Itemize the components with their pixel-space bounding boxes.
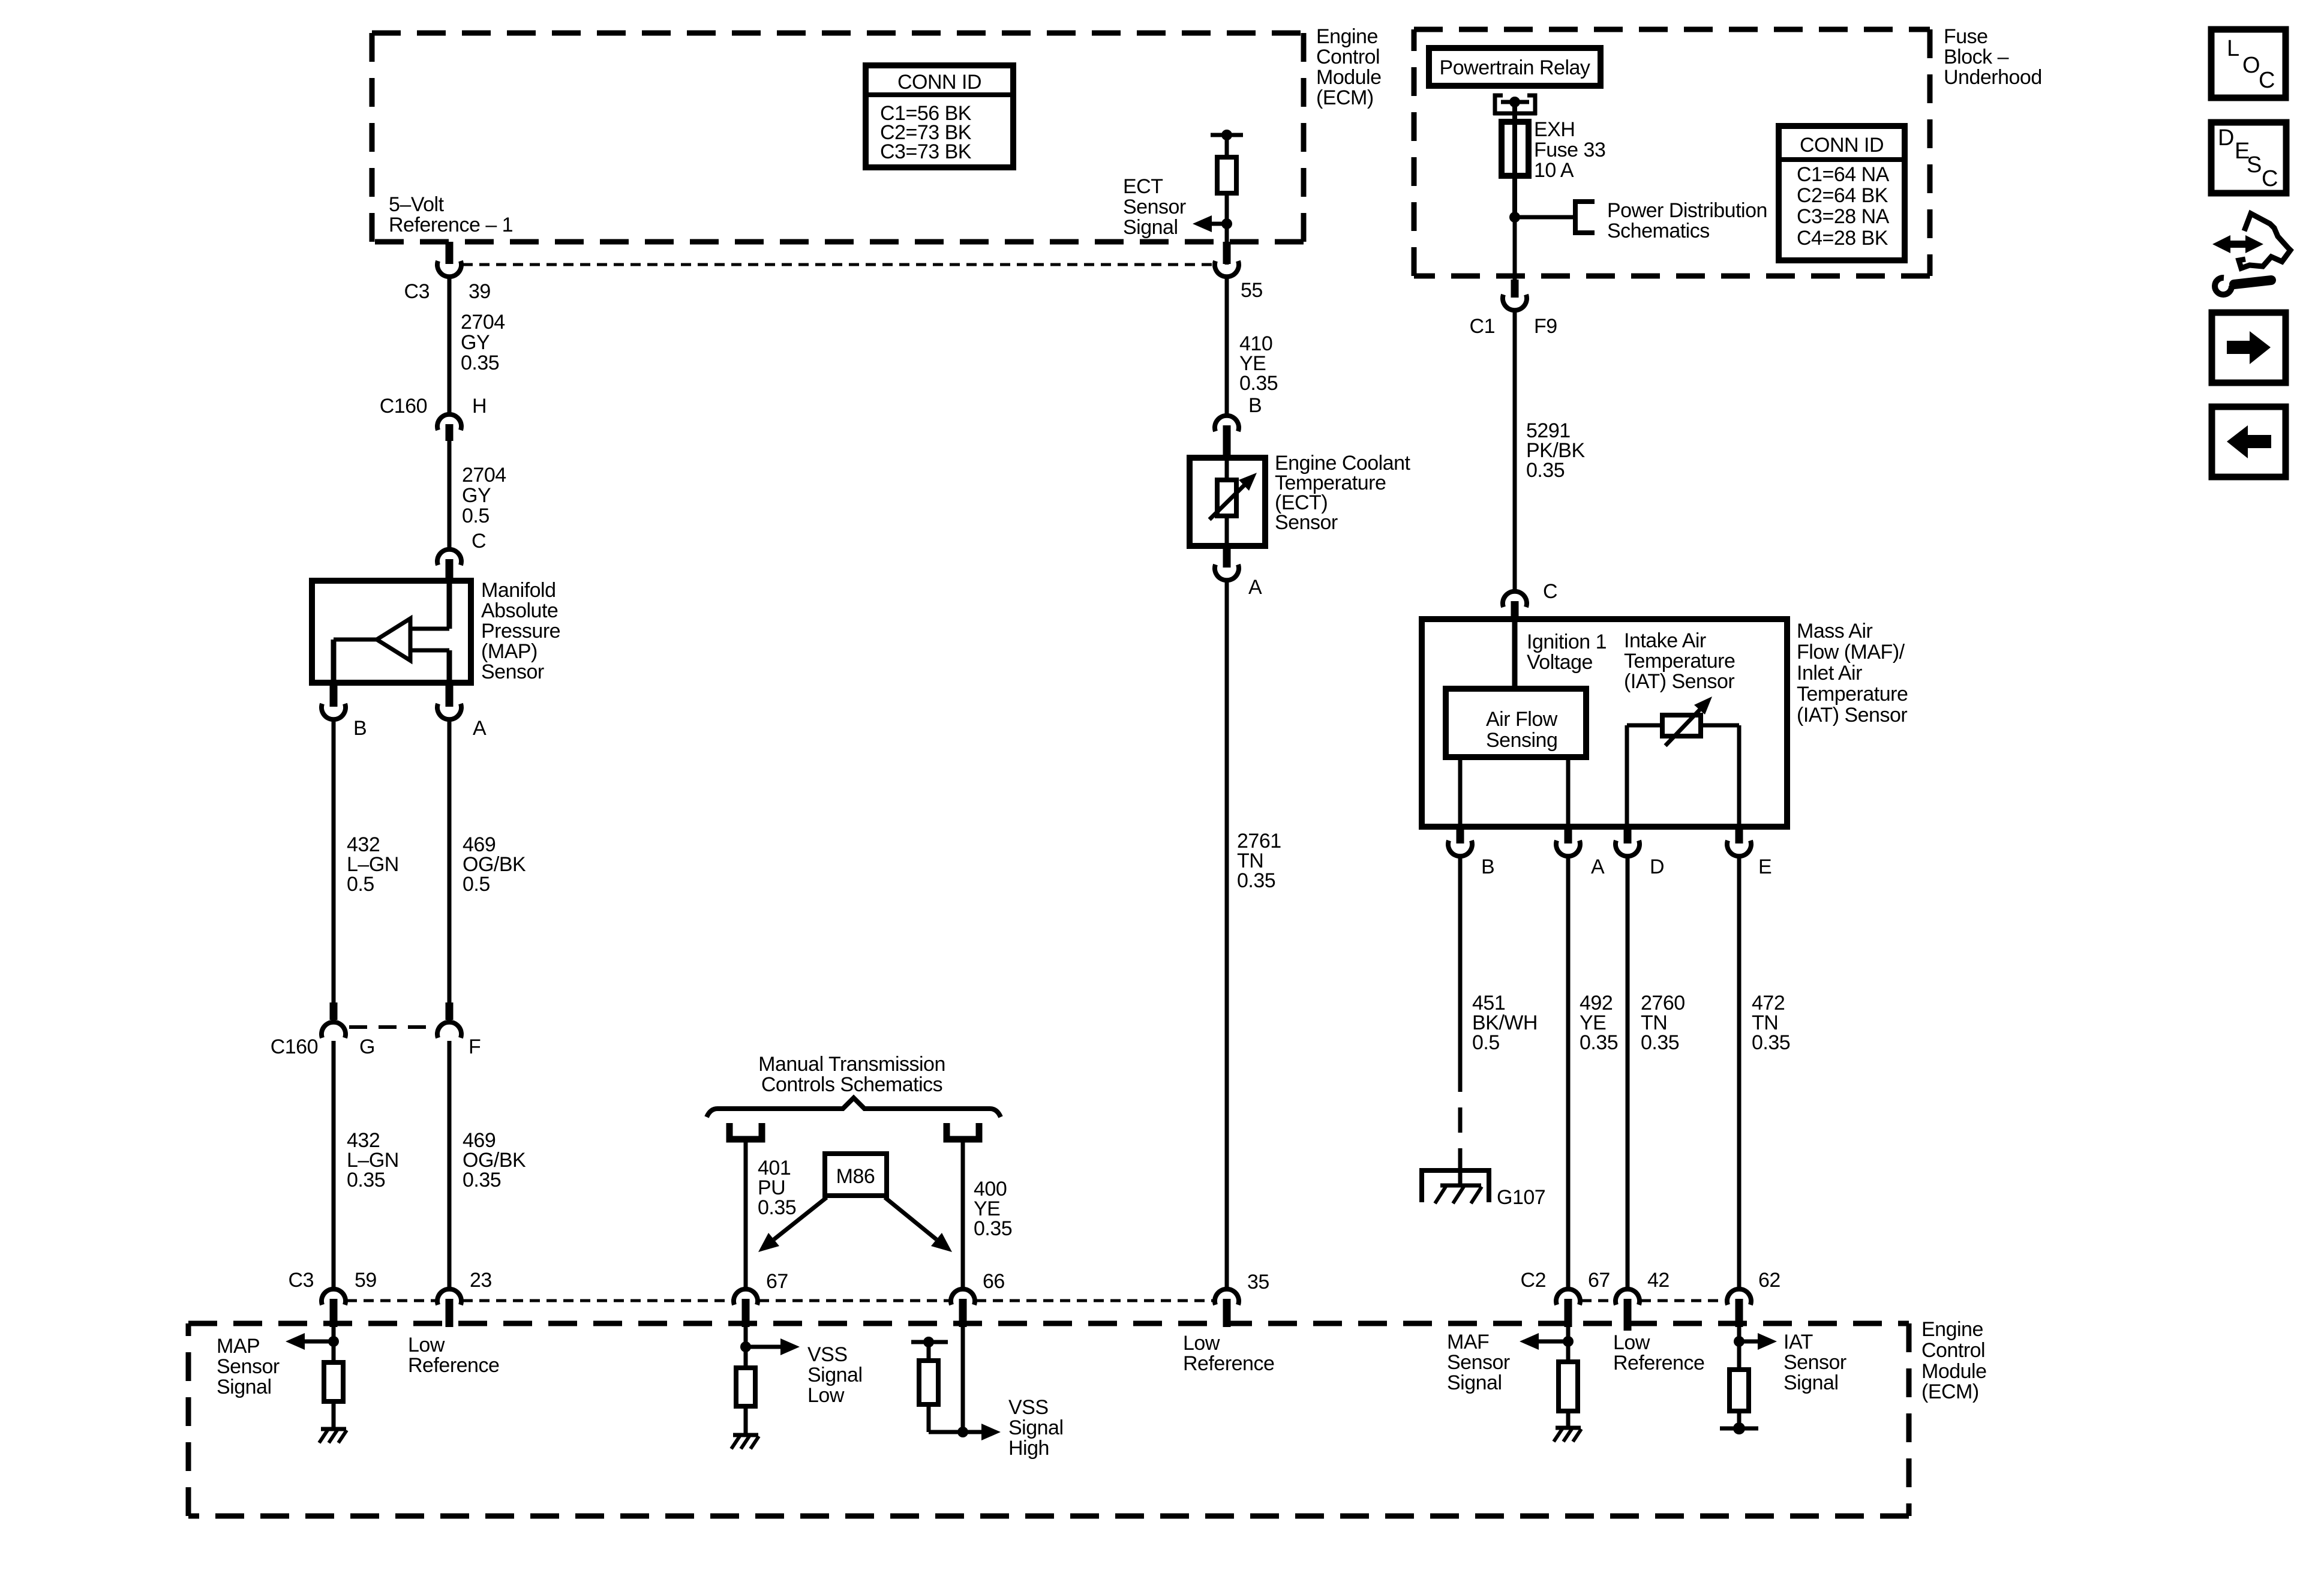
svg-text:C3=73 BK: C3=73 BK (880, 140, 972, 163)
node MAP sensor signal junction (328, 1336, 339, 1347)
svg-text:Low: Low (1613, 1331, 1650, 1354)
svg-text:C3: C3 (289, 1269, 314, 1292)
svg-text:G107: G107 (1497, 1186, 1545, 1209)
svg-text:Signal: Signal (1123, 216, 1178, 239)
svg-text:2704: 2704 (461, 311, 505, 334)
fuse EXH Fuse 33 10A (1502, 122, 1529, 176)
svg-text:Temperature: Temperature (1797, 683, 1908, 706)
svg-text:(ECM): (ECM) (1316, 86, 1374, 109)
svg-text:66: 66 (983, 1270, 1005, 1293)
svg-text:CONN ID: CONN ID (1800, 134, 1884, 157)
Powertrain Relay box (1429, 48, 1601, 86)
connector MAF pin C (1503, 592, 1527, 607)
svg-text:Reference: Reference (1613, 1352, 1704, 1374)
connector C2 pin 62 (1727, 1289, 1751, 1305)
svg-text:0.35: 0.35 (347, 1169, 385, 1191)
ground (ECM internal, MAP) (321, 1427, 346, 1431)
wire 451 BK/WH 0.5 (1458, 857, 1463, 1067)
connector MAP pin C (437, 550, 461, 565)
svg-text:Flow (MAF)/: Flow (MAF)/ (1797, 641, 1905, 664)
svg-text:0.5: 0.5 (1472, 1031, 1500, 1054)
node ECT sensor signal junction (1221, 218, 1232, 229)
Fuse Block - Underhood dashed box (1414, 27, 1930, 32)
wire (1737, 725, 1742, 827)
svg-text:C: C (2262, 166, 2278, 191)
svg-text:GY: GY (462, 484, 491, 507)
MAF sensor signal arrow (1535, 1340, 1568, 1344)
svg-text:C1: C1 (1470, 315, 1495, 338)
svg-text:0.35: 0.35 (758, 1196, 796, 1219)
node VSS pull-up bar (911, 1340, 948, 1344)
svg-text:Ignition 1: Ignition 1 (1527, 631, 1607, 653)
ground (ECM internal, MAF) (1556, 1426, 1581, 1430)
wire 2760 TN 0.35 (1626, 857, 1630, 1287)
svg-text:0.5: 0.5 (462, 505, 490, 527)
ECT sensor signal arrow (1208, 222, 1227, 226)
svg-text:Fuse: Fuse (1944, 25, 1988, 48)
svg-text:G: G (359, 1035, 375, 1058)
IAT thermistor symbol (1627, 724, 1662, 728)
svg-text:ECT: ECT (1123, 175, 1163, 198)
ECT thermistor symbol (1225, 458, 1229, 546)
svg-text:Sensor: Sensor (1123, 196, 1186, 218)
connector ECT pin A (1223, 546, 1231, 568)
ECM module dashed box (bottom) (188, 1321, 1909, 1326)
wire (927, 1342, 931, 1361)
svg-text:55: 55 (1241, 279, 1263, 302)
svg-text:A: A (1591, 855, 1605, 878)
IAT sensor signal arrow (1739, 1340, 1761, 1344)
svg-text:C: C (472, 530, 486, 553)
wire (332, 1327, 336, 1362)
svg-text:Inlet Air: Inlet Air (1797, 662, 1862, 685)
node ECT pull-up supply bar (1211, 133, 1243, 137)
M86 splice box (825, 1154, 887, 1196)
wire (744, 1327, 748, 1368)
svg-text:O: O (2242, 53, 2260, 78)
svg-text:Sensor: Sensor (1275, 511, 1338, 534)
svg-text:Signal: Signal (1447, 1371, 1502, 1394)
wire 492 YE 0.35 (1566, 857, 1571, 1287)
wire (1512, 619, 1518, 689)
brace (schematic group) (707, 1098, 1001, 1117)
node VSS signal high junction (957, 1427, 968, 1437)
Air Flow Sensing box (1446, 689, 1586, 757)
svg-text:10 A: 10 A (1534, 159, 1574, 182)
terminal post (VSS signal high) (947, 1123, 979, 1139)
svg-text:Low: Low (408, 1334, 445, 1356)
connector MAF pin E (1736, 827, 1743, 843)
svg-text:Absolute: Absolute (481, 599, 558, 622)
svg-text:S: S (2247, 152, 2262, 178)
svg-text:Signal: Signal (807, 1364, 863, 1386)
wire 432 L-GN 0.5 (332, 720, 336, 1004)
svg-text:2704: 2704 (462, 464, 506, 487)
svg-text:Powertrain Relay: Powertrain Relay (1440, 56, 1590, 79)
svg-text:0.35: 0.35 (974, 1217, 1012, 1240)
node IAT sensor signal junction (1734, 1336, 1744, 1347)
resistor ECT pull-up (ECM internal) (1217, 157, 1236, 193)
svg-text:High: High (1008, 1437, 1049, 1460)
svg-text:Engine: Engine (1921, 1318, 1983, 1341)
wire 432 L-GN 0.35 (332, 1041, 336, 1287)
svg-text:C2: C2 (1521, 1269, 1546, 1292)
wire (744, 1406, 748, 1435)
connector C160 pin H (437, 415, 461, 430)
MAF sensor box (1422, 619, 1787, 827)
svg-text:A: A (473, 717, 487, 740)
svg-text:0.5: 0.5 (347, 873, 374, 896)
svg-text:VSS: VSS (807, 1343, 848, 1366)
svg-text:39: 39 (469, 280, 491, 303)
svg-text:A: A (1248, 576, 1262, 599)
wire (1566, 1411, 1571, 1428)
wire 2761 TN 0.35 (1225, 581, 1229, 1287)
M86 arrow right (885, 1197, 936, 1239)
connector C160 pin F (446, 1002, 454, 1020)
svg-text:D: D (2218, 125, 2234, 151)
svg-text:B: B (1481, 855, 1494, 878)
svg-text:59: 59 (355, 1269, 377, 1292)
svg-text:Voltage: Voltage (1527, 651, 1593, 674)
svg-text:(IAT) Sensor: (IAT) Sensor (1797, 704, 1907, 727)
connector C1 pin F9 (1511, 280, 1519, 298)
wire (1625, 725, 1629, 827)
svg-text:Fuse 33: Fuse 33 (1534, 139, 1605, 161)
wire 5291 PK/BK 0.35 (1513, 311, 1517, 592)
svg-text:Low: Low (1183, 1332, 1220, 1355)
CONN ID table (ECM) (866, 65, 1013, 167)
wire 410 YE 0.35 (1225, 277, 1229, 416)
svg-text:Sensing: Sensing (1486, 729, 1557, 752)
wire 2704 GY 0.35 (448, 277, 452, 415)
svg-text:0.35: 0.35 (1580, 1031, 1618, 1054)
VSS signal low arrow (746, 1345, 784, 1349)
wire (1515, 215, 1573, 220)
svg-text:M86: M86 (836, 1165, 875, 1188)
wire (1737, 1327, 1742, 1370)
MAP sensor box (312, 581, 471, 683)
svg-text:0.35: 0.35 (463, 1169, 501, 1191)
svg-text:Sensor: Sensor (217, 1355, 280, 1378)
svg-text:C160: C160 (271, 1035, 318, 1058)
svg-text:67: 67 (766, 1270, 788, 1293)
svg-text:Intake Air: Intake Air (1624, 629, 1706, 652)
svg-text:0.35: 0.35 (1526, 459, 1565, 482)
ECM module dashed box (top) (372, 31, 1304, 36)
wire (1225, 135, 1229, 157)
node VSS signal low junction (740, 1341, 751, 1352)
connector ECM pin 66 (VSS high) (951, 1289, 975, 1305)
svg-text:B: B (353, 717, 367, 740)
svg-text:Low: Low (807, 1384, 845, 1407)
ground bar (ECM internal, IAT) (1720, 1427, 1758, 1431)
wire (1512, 102, 1517, 217)
wire 400 YE 0.35 (961, 1142, 965, 1287)
node fuse output junction (1509, 212, 1520, 223)
svg-text:Reference – 1: Reference – 1 (389, 214, 513, 236)
svg-text:42: 42 (1647, 1269, 1670, 1292)
svg-text:IAT: IAT (1783, 1331, 1813, 1353)
svg-text:Signal: Signal (1008, 1416, 1064, 1439)
wire 2704 GY 0.5 (448, 441, 452, 548)
wire 451 dashed segment (1458, 1067, 1463, 1170)
wire (1566, 1327, 1571, 1362)
dashed line between C160 G and F (349, 1025, 435, 1029)
resistor (ECM internal, MAF) (1559, 1362, 1578, 1411)
resistor (ECM internal, VSS low) (736, 1368, 755, 1406)
svg-text:H: H (472, 395, 487, 418)
MAP sensor signal arrow (301, 1340, 334, 1344)
svg-text:Control: Control (1316, 46, 1380, 68)
resistor (ECM internal, VSS high) (919, 1361, 938, 1404)
node MAF sensor signal junction (1563, 1336, 1574, 1347)
svg-text:VSS: VSS (1008, 1396, 1049, 1419)
svg-text:35: 35 (1247, 1271, 1269, 1293)
svg-text:Sensor: Sensor (481, 661, 544, 683)
svg-text:C3=28 NA: C3=28 NA (1797, 205, 1890, 228)
icon diagnostic wrench (2229, 241, 2247, 248)
wire (1513, 217, 1517, 280)
svg-text:MAF: MAF (1447, 1331, 1489, 1353)
svg-text:0.35: 0.35 (1752, 1031, 1790, 1054)
wire (1225, 193, 1229, 265)
wire 469 OG/BK 0.5 (448, 720, 452, 1004)
svg-text:Manifold: Manifold (481, 579, 556, 602)
icon LOC box (2211, 29, 2286, 98)
relay output terminal (1495, 95, 1503, 115)
svg-text:Block –: Block – (1944, 46, 2009, 68)
resistor (ECM internal, MAP) (324, 1362, 343, 1401)
connector C2 pin 42 (1616, 1289, 1640, 1305)
svg-text:F: F (469, 1035, 481, 1058)
svg-text:0.35: 0.35 (1239, 372, 1278, 395)
connector C3 pin 39 (446, 242, 454, 264)
svg-text:Signal: Signal (1783, 1371, 1839, 1394)
svg-text:(IAT) Sensor: (IAT) Sensor (1624, 670, 1734, 693)
svg-text:Sensor: Sensor (1783, 1351, 1846, 1374)
wire (1737, 1411, 1742, 1428)
svg-text:Module: Module (1921, 1360, 1987, 1383)
svg-text:0.35: 0.35 (1237, 869, 1275, 892)
connector ECM pin 35 (1215, 1289, 1239, 1305)
svg-text:L: L (2227, 36, 2239, 61)
svg-text:0.35: 0.35 (1641, 1031, 1679, 1054)
connector MAP pin B (330, 683, 338, 707)
svg-text:(MAP): (MAP) (481, 640, 538, 663)
icon DESC box (2211, 122, 2286, 193)
svg-text:23: 23 (470, 1269, 492, 1292)
svg-text:Schematics: Schematics (1607, 220, 1710, 242)
resistor (ECM internal, IAT) (1730, 1370, 1749, 1411)
svg-text:Underhood: Underhood (1944, 66, 2042, 89)
connector ECM pin 67 (VSS low) (734, 1289, 758, 1305)
connector C3 pin 59 (322, 1289, 346, 1305)
svg-text:Engine: Engine (1316, 25, 1378, 48)
svg-text:Pressure: Pressure (481, 620, 560, 643)
svg-text:0.35: 0.35 (461, 352, 499, 374)
M86 arrow left (774, 1197, 827, 1239)
svg-text:EXH: EXH (1534, 118, 1575, 141)
MAP sensor internal symbol (447, 581, 452, 629)
VSS signal high arrow (963, 1430, 985, 1434)
svg-text:B: B (1248, 394, 1262, 417)
connector C160 pin G (330, 1002, 338, 1020)
connector MAF pin B (1457, 827, 1464, 843)
svg-text:C2=64 BK: C2=64 BK (1797, 184, 1888, 207)
connector C2 pin 67 (MAF signal) (1556, 1289, 1580, 1305)
dotted harness line (bottom right) (1581, 1299, 1614, 1302)
svg-text:Reference: Reference (408, 1354, 499, 1377)
ground G107 (1458, 1166, 1463, 1187)
connector C2 pin 55 (1223, 242, 1231, 264)
svg-text:C1=64 NA: C1=64 NA (1797, 163, 1890, 186)
wire (927, 1404, 931, 1432)
wire 472 TN 0.35 (1737, 857, 1742, 1287)
svg-text:Control: Control (1921, 1339, 1985, 1362)
connector MAP pin A (446, 683, 454, 707)
icon forward arrow box (2212, 313, 2286, 383)
wire (961, 1327, 965, 1432)
svg-text:67: 67 (1588, 1269, 1610, 1292)
wire (1566, 757, 1571, 827)
svg-text:C: C (2259, 68, 2275, 93)
icon back arrow box (2212, 407, 2286, 477)
svg-text:Air Flow: Air Flow (1486, 708, 1558, 731)
svg-text:MAP: MAP (217, 1335, 260, 1358)
wire (1458, 757, 1463, 827)
ECT sensor box (1190, 458, 1265, 546)
svg-text:GY: GY (461, 331, 490, 354)
connector C3 pin 23 (437, 1289, 461, 1305)
svg-text:C: C (1543, 580, 1557, 603)
svg-text:0.5: 0.5 (463, 873, 490, 896)
connector ECT pin B (1215, 416, 1239, 431)
svg-text:Signal: Signal (217, 1376, 272, 1398)
svg-text:Manual Transmission: Manual Transmission (758, 1053, 945, 1076)
svg-text:Mass Air: Mass Air (1797, 620, 1873, 643)
ground (ECM internal, VSS low) (733, 1433, 758, 1437)
svg-text:Power Distribution: Power Distribution (1607, 199, 1767, 222)
svg-text:C160: C160 (380, 395, 427, 418)
wire 469 OG/BK 0.35 (448, 1041, 452, 1287)
CONN ID table (Fuse Block) (1779, 126, 1905, 260)
svg-text:Reference: Reference (1183, 1352, 1274, 1375)
svg-text:E: E (1758, 855, 1771, 878)
svg-text:Sensor: Sensor (1447, 1351, 1510, 1374)
terminal post (VSS signal low) (729, 1123, 762, 1139)
dotted harness line (top) (463, 263, 1214, 266)
connector MAF pin D (1624, 827, 1632, 843)
svg-text:62: 62 (1758, 1269, 1780, 1292)
svg-text:F9: F9 (1534, 315, 1557, 338)
schematic reference bracket Power Distribution (1575, 202, 1595, 233)
wire 401 PU 0.35 (744, 1142, 748, 1287)
svg-text:C4=28 BK: C4=28 BK (1797, 227, 1888, 250)
dotted harness line (bottom left) (347, 1299, 436, 1302)
svg-text:CONN ID: CONN ID (897, 71, 981, 94)
svg-text:Temperature: Temperature (1624, 650, 1735, 673)
wire (332, 1401, 336, 1429)
svg-text:D: D (1650, 855, 1664, 878)
svg-text:(ECM): (ECM) (1921, 1380, 1979, 1403)
svg-text:Controls Schematics: Controls Schematics (761, 1073, 942, 1096)
svg-text:C3: C3 (404, 280, 430, 303)
connector MAF pin A (1565, 827, 1572, 843)
svg-text:Module: Module (1316, 66, 1382, 89)
svg-text:5–Volt: 5–Volt (389, 193, 445, 216)
